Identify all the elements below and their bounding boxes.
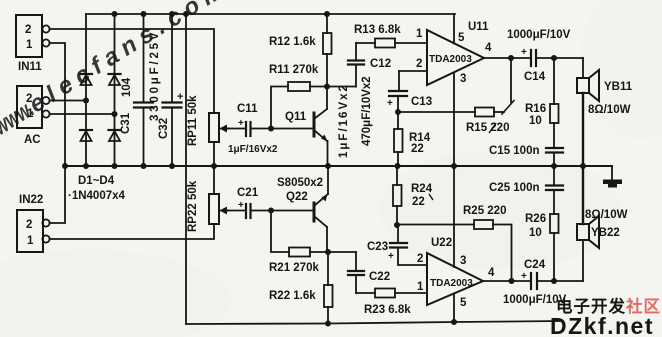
node gnd speakers [580,163,586,169]
wire diode column 2 [114,14,116,166]
capacitor C11 [228,122,313,136]
speaker YB11 [577,70,599,166]
transistor Q11 [314,87,328,167]
svg-text:R16: R16 [525,103,546,115]
wire top supply rail [86,13,455,15]
wire AC pin bottom to bridge [50,113,115,115]
svg-text:2: 2 [417,253,423,265]
diode D3 [80,130,92,141]
capacitor C23 [390,225,427,265]
svg-text:C23: C23 [367,241,388,253]
label R15 slash [489,123,496,133]
svg-text:1μF/16Vx2: 1μF/16Vx2 [228,144,278,155]
capacitor C13 [389,91,407,129]
svg-text:+: + [387,98,393,109]
svg-text:22: 22 [412,196,425,208]
capacitor C25 [546,166,563,190]
svg-text:2: 2 [26,93,32,105]
svg-text:R15 220: R15 220 [466,122,509,134]
svg-text:104: 104 [121,77,133,97]
capacitor C21 [228,204,313,218]
svg-text:RP11 50k: RP11 50k [187,95,199,146]
resistor R22 [324,252,333,324]
wire mid ground rail [65,165,612,167]
svg-text:3: 3 [460,73,466,85]
svg-text:1: 1 [26,39,33,51]
resistor R25 [397,220,512,281]
svg-text:C22: C22 [369,271,390,283]
node bottom rail pin5 [451,319,457,325]
wire IN11 pin1 ground link [50,43,66,223]
svg-text:S8050x2: S8050x2 [277,177,323,189]
node C14 R16 [551,55,557,61]
transistor Q22 [314,166,328,252]
svg-text:Q11: Q11 [285,111,307,123]
svg-text:1: 1 [417,281,424,293]
svg-text:R23 6.8k: R23 6.8k [364,304,411,316]
wire IN22 pin1 to RP22 [50,224,215,239]
svg-text:C15 100n: C15 100n [489,145,540,157]
connector AC [17,86,50,128]
wire output to speaker YB11 [582,58,584,78]
wire bottom supply rail [186,321,561,324]
diode D4 [109,130,121,141]
svg-text:3300μF/25V: 3300μF/25V [149,30,161,121]
resistor R26 [550,190,559,281]
node out U11 [508,55,514,61]
node bridge AC1 [83,98,89,104]
capacitor C32 [163,14,184,166]
node top rail C32 [169,11,175,17]
diode D2 [109,74,121,85]
svg-text:4: 4 [485,42,492,54]
svg-text:3: 3 [460,255,466,267]
node gnd C31 [141,163,147,169]
resistor R21 [289,248,328,257]
svg-text:22: 22 [411,143,424,155]
svg-text:U22: U22 [431,237,452,249]
svg-text:R22 1.6k: R22 1.6k [269,290,316,302]
node gnd R14 R24 [395,163,401,169]
svg-text:R13 6.8k: R13 6.8k [354,24,401,36]
wire collector node to C12 [327,86,356,88]
wire output to speaker YB22 [582,240,584,281]
resistor R14 [394,129,403,166]
wire R11 left lead [271,87,288,129]
svg-text:TDA2003: TDA2003 [429,54,472,65]
node top rail D2 [112,11,118,17]
node top rail C31 [141,11,147,17]
connector IN11 [16,15,50,57]
resistor R11 [288,82,327,91]
node out U22 [509,278,515,284]
node bridge AC2 [112,111,118,117]
connector IN22 [17,210,50,252]
svg-text:U11: U11 [468,21,489,33]
capacitor C14 [531,50,583,66]
speaker YB22 [577,166,599,248]
capacitor C31 [134,14,153,166]
capacitor C24 [531,273,583,289]
svg-text:AC: AC [24,134,41,146]
wire diode column 1 [85,14,87,166]
node gnd RP [211,163,217,169]
svg-text:R11 270k: R11 270k [269,64,319,76]
node C11 R11 [268,126,274,132]
node gnd Q [325,163,331,169]
svg-text:10: 10 [529,115,542,127]
svg-text:Q22: Q22 [286,191,308,203]
svg-text:R26: R26 [525,213,546,225]
svg-text:IN11: IN11 [18,61,42,73]
svg-text:TDA2003: TDA2003 [430,278,473,289]
node gnd D4 [112,163,118,169]
svg-text:+: + [238,118,244,129]
svg-text:DZkf.net: DZkf.net [550,313,654,337]
node C23 R24 [394,222,400,228]
node C13 R14 [395,109,401,115]
wire Vcc link left edge [185,14,187,324]
node top rail link [183,11,189,17]
resistor R13 [356,39,427,48]
svg-text:R12 1.6k: R12 1.6k [269,36,316,48]
svg-text:10: 10 [529,227,542,239]
svg-text:R21 270k: R21 270k [269,262,319,274]
svg-text:C13: C13 [411,96,432,108]
svg-text:D1~D4: D1~D4 [78,175,115,187]
resistor R15 [398,58,514,117]
diode D1 [80,74,92,85]
node R21 R22 [325,249,331,255]
svg-text:IN22: IN22 [19,194,43,206]
svg-text:8Ω/10W: 8Ω/10W [585,209,628,221]
wire R21 left lead [271,211,289,253]
resistor R16 [550,58,559,148]
wire U11 output [484,57,531,59]
svg-text:4: 4 [488,267,495,279]
svg-text:C31: C31 [120,112,132,134]
ground [603,166,622,188]
watermark dzkf [550,296,661,337]
wire IN11 pin2 to RP11 [50,29,215,113]
svg-text:C25 100n: C25 100n [489,182,540,194]
node top rail R12 [324,11,330,17]
capacitor C22 [348,252,364,293]
svg-text:C12: C12 [370,58,391,70]
capacitor C12 [348,43,364,87]
node gnd IN [62,163,68,169]
svg-text:R24: R24 [411,183,433,195]
resistor R24 [393,166,402,225]
svg-text:8Ω/10W: 8Ω/10W [588,104,631,116]
node bottom rail R22 [325,321,331,327]
svg-text:2: 2 [25,24,31,36]
svg-text:5: 5 [460,297,467,309]
svg-text:1: 1 [416,28,423,40]
svg-text:+: + [177,91,183,103]
svg-text:C21: C21 [237,187,259,199]
svg-text:1: 1 [27,108,34,120]
svg-text:R25 220: R25 220 [463,205,506,217]
capacitor C15 [546,148,563,166]
svg-text:1: 1 [27,235,34,247]
op-amp U11 TDA2003 [399,14,484,166]
svg-text:5: 5 [458,32,465,44]
node gnd C15 C25 [551,163,557,169]
svg-text:YB11: YB11 [604,81,633,93]
svg-text:2: 2 [26,219,32,231]
svg-text:1000μF/10V: 1000μF/10V [507,29,571,41]
watermark elecfans [0,0,234,141]
node gnd pin3 [451,163,457,169]
wire collector node to C22 [328,251,356,253]
svg-text:C14: C14 [524,71,546,83]
resistor R12 [323,14,332,87]
svg-text:C32: C32 [158,118,170,139]
svg-text:2: 2 [416,58,422,70]
svg-text:+: + [238,200,244,211]
svg-text:+: + [521,271,527,282]
potentiometer RP11 [209,113,228,166]
svg-text:470μF/10Vx2: 470μF/10Vx2 [361,76,373,146]
svg-text:RP22 50k: RP22 50k [187,180,199,232]
node C21 R21 [268,208,274,214]
svg-text:C24: C24 [524,259,546,271]
svg-text:·1N4007x4: ·1N4007x4 [68,190,126,202]
potentiometer RP22 [209,166,228,224]
node gnd D3 [83,163,89,169]
svg-text:1μF/16Vx2: 1μF/16Vx2 [338,83,350,158]
op-amp U22 TDA2003 [427,166,483,323]
svg-text:YB22: YB22 [591,227,620,239]
node gnd C32 [169,163,175,169]
svg-text:C11: C11 [237,103,258,115]
node R11 R12 [324,84,330,90]
resistor R23 [356,289,427,298]
wire AC pin top to bridge [50,100,87,102]
svg-text:+: + [388,251,394,262]
node C24 R26 [551,278,557,284]
svg-text:+: + [521,47,527,58]
wire U22 output [483,280,531,282]
